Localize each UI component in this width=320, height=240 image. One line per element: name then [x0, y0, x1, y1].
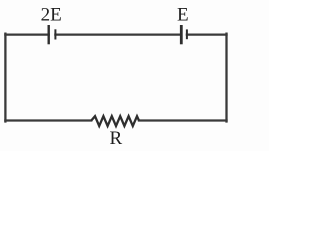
- battery E: [181, 25, 187, 44]
- wire right side: [225, 34, 227, 122]
- wire bottom-left segment: [5, 119, 91, 121]
- battery 2E: [49, 25, 56, 44]
- wire bottom-right segment: [139, 119, 227, 121]
- svg-text:R: R: [109, 128, 122, 149]
- wire left side: [4, 34, 6, 122]
- wire top-right segment: [187, 33, 227, 35]
- svg-text:2E: 2E: [41, 4, 62, 25]
- wire top-left segment: [5, 33, 48, 35]
- svg-text:E: E: [177, 4, 189, 25]
- wire between battery 2E and battery E: [55, 33, 181, 35]
- resistor R: [91, 116, 139, 126]
